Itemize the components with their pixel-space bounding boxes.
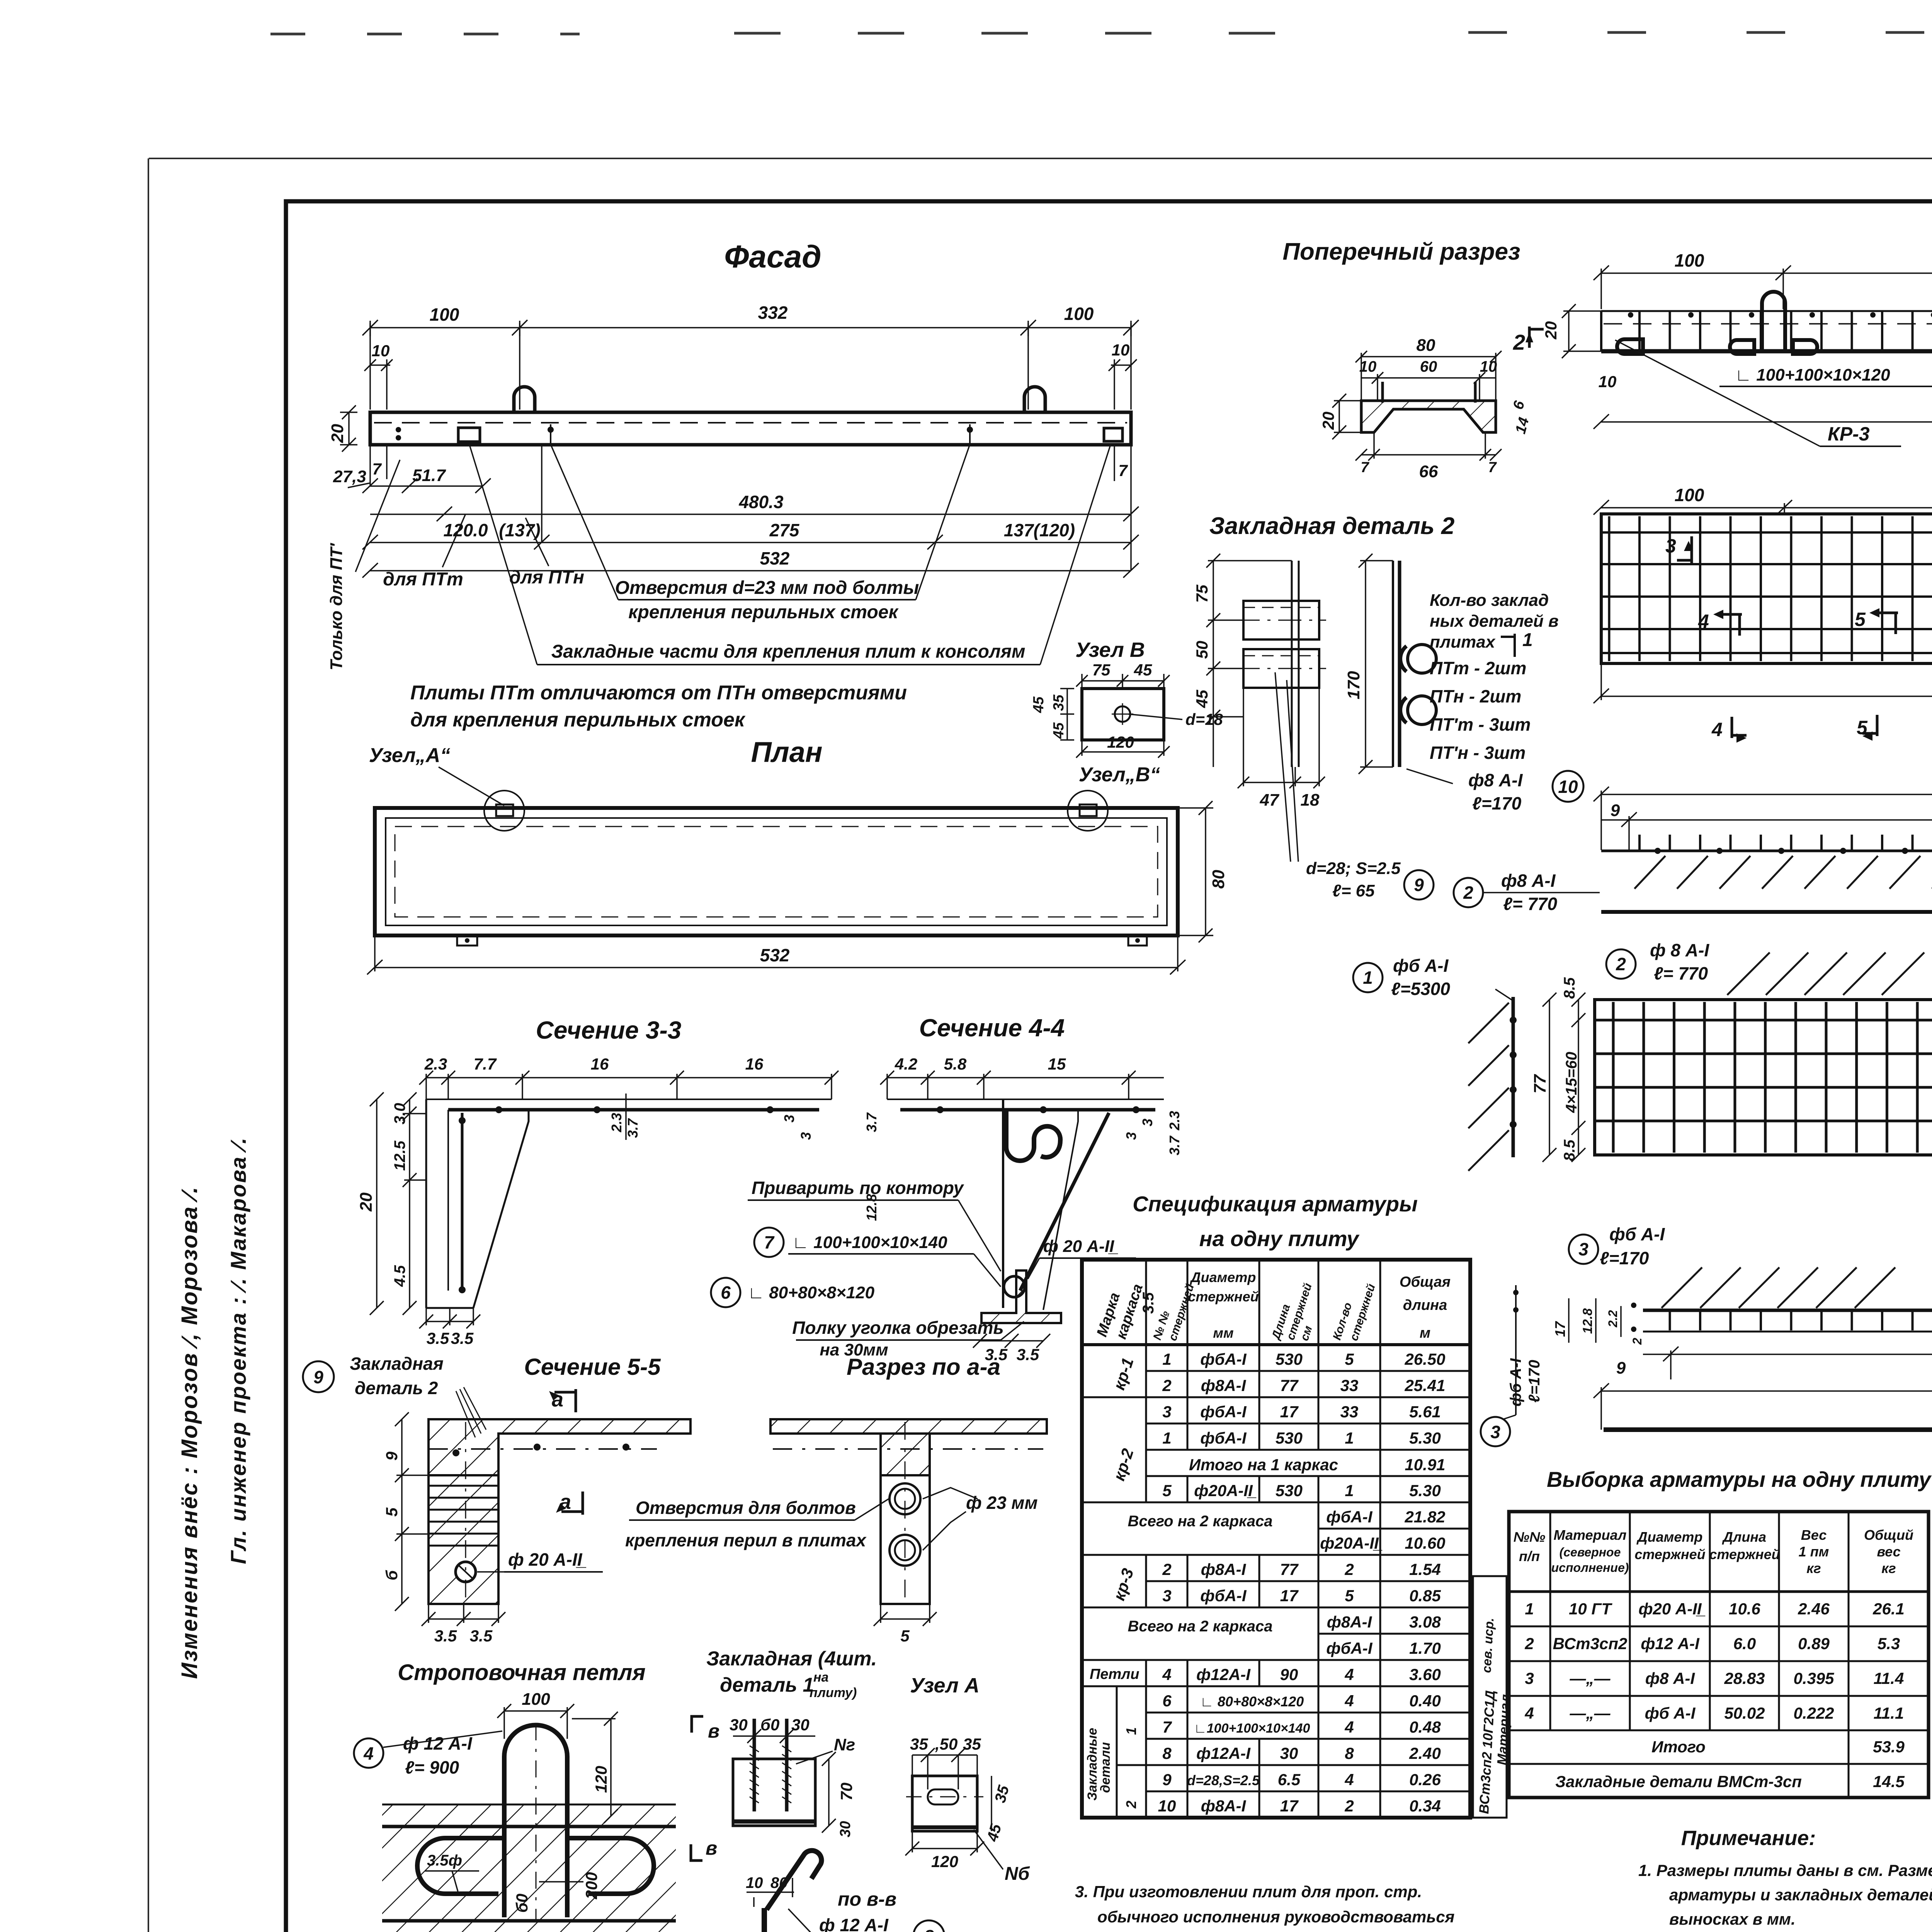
uzel B d=18 [1128,714,1182,719]
cross section dim 80 [1355,351,1502,401]
petlya lower hook right [568,1838,654,1894]
svg-text:3.7: 3.7 [625,1118,641,1138]
razrez 2-2 dim 332/100 [1594,500,1932,515]
petlya loop [504,1725,567,1918]
svg-text:10.91: 10.91 [1405,1456,1445,1474]
section 3-3 mid dims 2.3 3.7 [625,1094,627,1140]
svg-text:30: 30 [1280,1744,1298,1762]
svg-text:14.5: 14.5 [1873,1772,1905,1791]
svg-text:8.5: 8.5 [1561,1139,1578,1161]
svg-text:2: 2 [1630,1338,1644,1345]
svg-text:2.3: 2.3 [609,1113,624,1133]
facade lower dim chain 27.3 / 51.7 [348,478,491,493]
svg-text:1.54: 1.54 [1409,1560,1441,1578]
svg-text:Закладная: Закладная [350,1354,444,1374]
svg-text:18: 18 [1301,791,1320,810]
svg-text:ℓ=170: ℓ=170 [1472,793,1522,813]
razrez 1-1 dashed axis [1604,323,1932,325]
svg-text:5: 5 [900,1627,910,1645]
svg-text:9: 9 [1414,875,1424,895]
svg-text:2: 2 [1463,883,1473,903]
svg-text:4: 4 [1344,1692,1354,1710]
KP-1 bar dim 530 / 32x16=512 [1594,787,1932,850]
svg-text:3: 3 [1162,1587,1171,1605]
svg-text:2: 2 [1513,330,1525,354]
svg-text:10: 10 [1558,777,1578,797]
svg-text:3.08: 3.08 [1409,1613,1441,1631]
svg-text:4×15=60: 4×15=60 [1563,1052,1580,1113]
svg-text:12.8: 12.8 [1580,1308,1595,1334]
KP-1 mesh left dims 77 / 4x15=60 / 8.5 [1543,993,1585,1162]
KP-1 mesh weld hatch top [1727,952,1924,995]
svg-text:мм: мм [1213,1325,1233,1341]
svg-text:Сечение 3-3: Сечение 3-3 [536,1016,682,1044]
svg-text:4.5: 4.5 [391,1265,408,1287]
svg-text:17: 17 [1280,1403,1299,1421]
svg-text:0.26: 0.26 [1409,1770,1441,1789]
KP-1 mesh left vertical bar with hatch [1512,997,1515,1157]
svg-text:12.8: 12.8 [864,1194,879,1221]
po v-v angle detail [764,1908,821,1932]
section 3-3 top dims [419,1071,838,1099]
svg-text:фбА-І: фбА-І [1200,1403,1247,1421]
svg-text:26.1: 26.1 [1872,1600,1905,1618]
svg-text:Петли: Петли [1090,1666,1139,1682]
svg-text:10: 10 [1599,372,1617,391]
svg-text:5: 5 [383,1507,401,1517]
svg-text:532: 532 [760,548,790,568]
svg-text:50: 50 [1193,641,1211,659]
svg-text:2.2: 2.2 [1606,1310,1620,1328]
svg-text:10.60: 10.60 [1405,1534,1445,1552]
svg-text:Итого: Итого [1651,1738,1706,1756]
svg-text:120: 120 [931,1852,958,1871]
section 4-4 diagonal bar [1020,1113,1109,1291]
svg-text:,50: ,50 [935,1735,957,1753]
svg-text:фбА-І: фбА-І [1200,1350,1247,1368]
uzel B left dims 35 45 [1060,689,1074,740]
svg-text:ф12А-І: ф12А-І [1196,1744,1251,1762]
section 3-3 bottom dims 3.5 3.5 [419,1308,480,1328]
svg-text:Выборка арматуры на одну плиту: Выборка арматуры на одну плиту [1547,1467,1932,1492]
svg-text:Всего на 2 каркаса: Всего на 2 каркаса [1128,1513,1272,1530]
svg-text:длина: длина [1403,1297,1447,1313]
section 4-4 top dims [880,1071,1164,1099]
petlya lower hook left [417,1838,503,1894]
svg-text:ных деталей в: ных деталей в [1430,612,1559,631]
razrez 1-1 dim 532 line [1594,414,1932,429]
facade beam body [370,412,1131,445]
svg-text:Полку уголка обрезать: Полку уголка обрезать [792,1318,1004,1338]
KP-1 mesh grid [1595,1000,1932,1155]
svg-text:7: 7 [1361,459,1369,476]
spec table verticals [1082,1260,1380,1818]
svg-text:5: 5 [1345,1587,1354,1605]
svg-text:80: 80 [1209,870,1228,889]
svg-text:1: 1 [1162,1429,1171,1447]
svg-text:530: 530 [1276,1350,1303,1368]
svg-text:ℓ= 770: ℓ= 770 [1503,894,1558,914]
facade embedded plate left [458,428,480,442]
svg-text:35: 35 [910,1735,928,1753]
svg-text:17: 17 [1280,1587,1299,1605]
svg-text:10: 10 [746,1874,763,1891]
razrez 1-1 beam outline [1601,310,1932,312]
svg-text:2.46: 2.46 [1798,1600,1830,1618]
svg-text:6: 6 [1162,1692,1172,1710]
svg-text:0.40: 0.40 [1409,1692,1441,1710]
svg-text:ф20А-ІІ̲: ф20А-ІІ̲ [1194,1481,1257,1500]
svg-text:35: 35 [963,1735,981,1753]
svg-text:Кол-во заклад: Кол-во заклад [1430,591,1549,610]
svg-text:ф 8 А-І: ф 8 А-І [1650,940,1709,960]
drawing frame [286,201,1932,1932]
svg-text:d=28,S=2.5: d=28,S=2.5 [1187,1772,1260,1788]
vyborka armatury table [1509,1512,1929,1798]
svg-text:Отверстия для болтов: Отверстия для болтов [636,1498,856,1518]
facade dim 532 [362,563,1139,578]
embedded detail 2 dim 170 [1359,554,1393,774]
svg-text:120: 120 [592,1766,610,1793]
svg-text:27,3: 27,3 [333,467,366,486]
svg-text:ℓ=170: ℓ=170 [1600,1248,1649,1268]
svg-text:КР-3: КР-3 [1828,423,1870,445]
spec table frame [1082,1260,1470,1818]
svg-text:8: 8 [1162,1744,1172,1762]
svg-text:9: 9 [313,1367,323,1387]
razrez a-a slab [770,1419,1047,1475]
petlya dim 60 [539,1881,583,1883]
svg-text:Вес: Вес [1801,1527,1827,1543]
svg-text:45: 45 [1134,661,1152,679]
svg-text:d=28; S=2.5: d=28; S=2.5 [1306,859,1401,878]
svg-text:9: 9 [1616,1359,1626,1378]
svg-text:4: 4 [363,1743,374,1764]
facade lifting loop left [514,387,535,412]
section 4-4 T angle welded [981,1270,1061,1323]
svg-text:Общая: Общая [1400,1274,1451,1290]
svg-text:50.02: 50.02 [1724,1704,1765,1722]
embedded detail 2 lower tube [1243,649,1319,688]
svg-text:ф8А-І: ф8А-І [1201,1797,1247,1815]
svg-text:30: 30 [791,1716,810,1734]
svg-text:б0: б0 [513,1894,531,1913]
KP-2 weld hatch above bar [1662,1267,1895,1308]
svg-text:4: 4 [1711,719,1723,740]
facade dimension line 10 offsets [364,359,1137,410]
svg-text:Спецификация арматуры: Спецификация арматуры [1133,1192,1418,1216]
svg-text:арматуры и закладных детале: арматуры и закладных деталей на [1669,1886,1932,1904]
svg-text:Фасад: Фасад [724,239,821,274]
svg-text:кг: кг [1881,1560,1896,1576]
svg-text:∟100+100×10×140: ∟100+100×10×140 [1194,1721,1310,1736]
svg-text:фб А-І: фб А-І [1393,956,1449,976]
svg-text:4: 4 [1344,1770,1354,1789]
svg-text:10 ГТ: 10 ГТ [1569,1600,1612,1618]
svg-text:для ПТт: для ПТт [383,569,463,590]
svg-text:3.0: 3.0 [391,1103,408,1124]
svg-text:вес: вес [1877,1544,1900,1560]
svg-text:2: 2 [1344,1560,1354,1578]
svg-text:п/п: п/п [1519,1548,1540,1564]
svg-text:ВСт3сп2: ВСт3сп2 [1553,1634,1628,1653]
svg-text:20: 20 [1542,321,1560,340]
section 3-3 left column [425,1099,427,1308]
svg-text:17: 17 [1552,1321,1568,1337]
svg-text:детали: детали [1098,1742,1113,1793]
svg-text:ф 20 А-ІІ̲: ф 20 А-ІІ̲ [1043,1237,1118,1256]
svg-text:м: м [1420,1325,1430,1341]
svg-text:20: 20 [357,1192,376,1212]
svg-text:3: 3 [781,1115,797,1122]
svg-text:137(120): 137(120) [1004,520,1075,540]
svg-text:деталь 1: деталь 1 [720,1674,814,1696]
svg-text:Плиты ПТт отличаются от ПТн от: Плиты ПТт отличаются от ПТн отверстиями [410,682,907,704]
svg-text:ф 20 А-ІІ̲: ф 20 А-ІІ̲ [508,1549,587,1570]
svg-text:7.7: 7.7 [474,1055,497,1073]
svg-text:Сечение 5-5: Сечение 5-5 [524,1354,661,1380]
svg-text:обычного исполнения руководс: обычного исполнения руководствоваться [1097,1908,1454,1926]
svg-text:Узел А: Узел А [910,1674,980,1697]
svg-text:0.395: 0.395 [1793,1669,1834,1687]
svg-text:2.40: 2.40 [1409,1744,1441,1762]
svg-text:ф8А-І: ф8А-І [1327,1613,1372,1631]
svg-text:для крепления перильных стоек: для крепления перильных стоек [410,709,746,731]
section 4-4 bottom dims [973,1334,1050,1348]
svg-text:Закладные части для крепления: Закладные части для крепления плит к кон… [551,641,1025,662]
svg-text:4: 4 [1524,1704,1534,1722]
svg-text:ф8 А-І: ф8 А-І [1501,871,1556,891]
svg-text:17: 17 [1280,1797,1299,1815]
svg-text:ПТ′н - 3шт: ПТ′н - 3шт [1430,743,1526,763]
svg-text:30: 30 [837,1821,854,1837]
svg-text:7: 7 [1488,459,1497,476]
svg-text:3.7: 3.7 [1167,1135,1182,1155]
KP-1 f8 label circle 2 [1454,878,1483,907]
svg-text:б0: б0 [760,1716,779,1734]
svg-text:Строповочная петля: Строповочная петля [398,1660,645,1685]
svg-text:выносках в мм.: выносках в мм. [1669,1910,1796,1928]
razrez 2-2 mesh [1601,514,1932,663]
svg-text:16: 16 [745,1055,764,1073]
svg-text:4: 4 [1344,1718,1354,1736]
svg-text:90: 90 [1280,1665,1298,1684]
svg-text:6: 6 [721,1282,731,1303]
section 3-3 haunch contour [473,1110,529,1308]
svg-text:Закладные детали ВМСт-3сп: Закладные детали ВМСт-3сп [1555,1772,1802,1791]
svg-text:крепления перильных стоек: крепления перильных стоек [628,602,899,622]
svg-text:Изменения внёс : Морозов ∕,: Изменения внёс : Морозов ∕, Морозова ∕. [177,1186,202,1679]
svg-text:ℓ= 900: ℓ= 900 [405,1757,459,1777]
svg-text:0.34: 0.34 [1409,1797,1441,1815]
svg-text:3: 3 [1490,1422,1500,1442]
svg-text:120: 120 [1107,733,1134,751]
svg-text:70: 70 [837,1782,855,1801]
svg-text:60: 60 [1420,358,1437,375]
svg-text:80: 80 [1417,336,1435,355]
svg-text:б: б [383,1570,401,1580]
plan uzel A circle right [1068,791,1108,831]
KP-1 bar weld hatch [1634,856,1932,889]
svg-text:деталь 2: деталь 2 [355,1378,438,1398]
svg-text:фб А-І: фб А-І [1645,1704,1696,1722]
svg-text:2.3: 2.3 [424,1055,447,1073]
detail 1 right dims 70 30 [822,1752,836,1833]
svg-text:532: 532 [760,945,790,965]
svg-text:77: 77 [1280,1560,1299,1578]
svg-text:53.9: 53.9 [1873,1738,1905,1756]
facade beam dashed axis [374,422,1127,423]
spec table horizontals [1082,1345,1470,1791]
svg-text:Закладные: Закладные [1085,1728,1100,1801]
embedded detail 2 washers [1408,645,1436,673]
svg-text:ф12 А-І: ф12 А-І [1641,1634,1700,1653]
svg-text:20: 20 [328,424,347,443]
svg-text:Узел В: Узел В [1075,638,1145,662]
svg-text:21.82: 21.82 [1404,1508,1445,1526]
petlya dim 100 [497,1704,574,1739]
section 4-4 S-hook [1006,1110,1060,1161]
svg-text:сев. иср.: сев. иср. [1479,1617,1496,1673]
svg-text:2: 2 [1616,954,1626,974]
svg-text:5.61: 5.61 [1409,1403,1441,1421]
svg-text:3.5: 3.5 [470,1627,493,1645]
KP-1 bar with stirrup ticks [1629,835,1932,851]
svg-text:Узел„А“: Узел„А“ [369,744,451,767]
cross section rebar stubs [1381,382,1384,403]
embedded detail 2 right: side view plate [1393,561,1400,767]
svg-text:2: 2 [1524,1634,1534,1653]
svg-text:1: 1 [1525,1600,1534,1618]
svg-text:3.5: 3.5 [434,1627,457,1645]
svg-text:стержней: стержней [1634,1546,1705,1562]
svg-text:80: 80 [770,1874,788,1891]
svg-text:5.8: 5.8 [944,1055,967,1073]
svg-text:10: 10 [1359,358,1377,375]
svg-text:∟ 100+100×10×140: ∟ 100+100×10×140 [792,1233,947,1252]
svg-text:66: 66 [1419,462,1438,481]
svg-text:3.7: 3.7 [864,1112,879,1132]
svg-text:фбА-І: фбА-І [1326,1639,1372,1657]
cross section slab profile [1361,401,1496,432]
svg-text:5.30: 5.30 [1409,1481,1441,1500]
svg-text:Всего на 2 каркаса: Всего на 2 каркаса [1128,1618,1272,1635]
spec table data rows [1128,1350,1445,1815]
svg-text:7: 7 [1162,1718,1172,1736]
svg-text:Только для ПТ′: Только для ПТ′ [327,543,346,670]
svg-text:1: 1 [1345,1429,1354,1447]
svg-text:∟ 80+80×8×120: ∟ 80+80×8×120 [748,1283,875,1302]
svg-text:ф8 А-І: ф8 А-І [1645,1669,1696,1687]
svg-text:480.3: 480.3 [738,492,784,512]
svg-text:исполнение): исполнение) [1551,1561,1629,1575]
KP-2 left rotated callout f6 l=170 circle 3 [1515,1285,1517,1415]
svg-text:0.48: 0.48 [1409,1718,1441,1736]
svg-text:Nг: Nг [834,1735,855,1754]
svg-text:9: 9 [1162,1770,1172,1789]
svg-text:1 пм: 1 пм [1799,1544,1829,1560]
embedded detail 2 left dims 75 50 45 [1206,554,1292,767]
petlya dim 120 [572,1712,618,1823]
svg-text:крепления перил в плитах: крепления перил в плитах [625,1530,867,1550]
svg-text:0.85: 0.85 [1409,1587,1441,1605]
svg-text:стержней: стержней [1709,1546,1780,1562]
razrez 1-1 left end angle [1617,339,1643,354]
N6 dim 120 [905,1831,984,1855]
svg-text:ℓ= 65: ℓ= 65 [1332,881,1375,900]
svg-text:11.1: 11.1 [1874,1704,1904,1722]
svg-text:47: 47 [1260,791,1280,810]
svg-text:120.0: 120.0 [443,520,488,540]
po v-v dims 10 80 [747,1878,794,1907]
svg-text:100: 100 [430,304,459,325]
svg-text:фбА-І: фбА-І [1326,1508,1372,1526]
svg-text:Поперечный разрез: Поперечный разрез [1282,238,1520,265]
svg-text:№№: №№ [1514,1529,1546,1545]
embedded detail 2 left: vertical plate [1292,561,1299,767]
svg-text:ф 12 А-І: ф 12 А-І [819,1915,889,1932]
svg-text:4: 4 [1698,611,1709,632]
svg-text:ПТт - 2шт: ПТт - 2шт [1430,658,1526,678]
svg-text:5: 5 [1345,1350,1354,1368]
facade embedded plate right [1104,428,1122,441]
svg-text:11.4: 11.4 [1874,1669,1904,1687]
svg-text:Общий: Общий [1864,1527,1913,1543]
KP-1 mesh circle 2 f8 l=770 [1606,949,1636,979]
cross section dim 10 60 10 [1361,372,1496,401]
plan view rectangle [375,808,1178,935]
svg-text:30: 30 [730,1716,748,1734]
svg-text:2: 2 [1123,1801,1139,1809]
razrez 2-2 dim 532 below [1594,663,1932,703]
svg-text:77: 77 [1531,1074,1549,1094]
svg-text:ф12А-І: ф12А-І [1196,1665,1251,1684]
N6 dims 35 50 35 [912,1748,977,1789]
KP-2 left small dims [1569,1298,1621,1343]
svg-text:3: 3 [1525,1669,1534,1687]
svg-text:5.3: 5.3 [1878,1634,1900,1653]
section 4-4 slab lines [887,1099,1164,1100]
svg-text:1: 1 [1363,968,1373,988]
section 4-4 vertical bar [1002,1099,1004,1308]
svg-text:Итого на 1 каркас: Итого на 1 каркас [1189,1456,1338,1474]
section 3-3 slab lines [426,1099,832,1100]
section 5-5 slab [429,1419,690,1475]
svg-text:Диаметр: Диаметр [1190,1269,1256,1285]
KP-2 bottom thick bar f20 [1604,1427,1932,1432]
section 5-5 bottom dims 3.5 3.5 [422,1604,505,1626]
svg-text:1: 1 [1522,630,1533,650]
detail 1 studs [754,1719,787,1811]
svg-text:1. Размеры плиты даны в с: 1. Размеры плиты даны в см. Размеры [1638,1861,1932,1879]
svg-text:5: 5 [1162,1481,1172,1500]
section 5-5 left dims 9 5 6 [395,1412,429,1611]
razrez 1-1 top dots [1628,312,1932,318]
plan uzel A circle left [484,791,524,831]
svg-text:10: 10 [372,342,390,360]
svg-text:100: 100 [1675,250,1704,270]
cross section dim 66 [1355,432,1502,461]
svg-text:1: 1 [1162,1350,1171,1368]
svg-text:—„—: —„— [1570,1704,1611,1722]
material strip [1473,1576,1507,1818]
svg-text:ℓ=5300: ℓ=5300 [1391,979,1450,999]
svg-text:33: 33 [1340,1376,1359,1395]
facade dim 480.3 [370,507,1139,521]
svg-text:Приварить по контору: Приварить по контору [752,1178,964,1198]
uzel B plate [1082,689,1164,740]
svg-text:332: 332 [758,303,788,323]
